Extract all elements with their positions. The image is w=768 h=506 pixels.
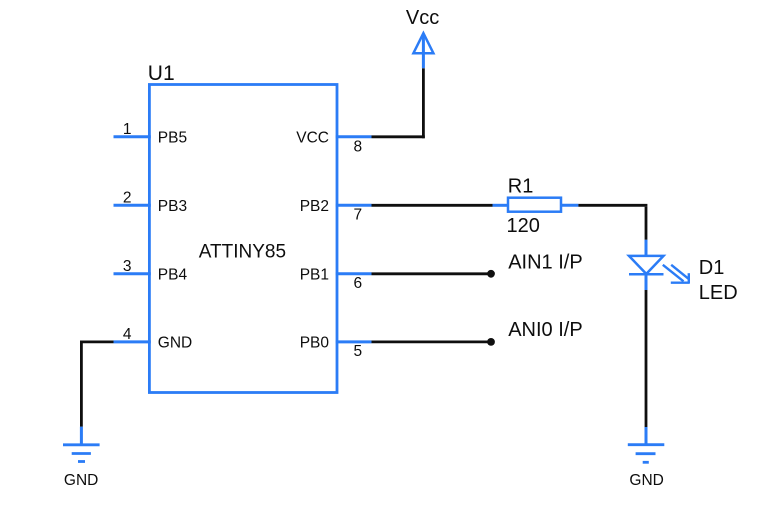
svg-text:1: 1 bbox=[123, 121, 132, 138]
pin 1 wire (PB5) bbox=[114, 135, 151, 138]
LED D1 anode lead bbox=[645, 240, 648, 257]
ground symbol left bar 3 bbox=[78, 460, 85, 463]
pin 5 wire (PB0 blue stub) bbox=[336, 340, 372, 343]
svg-text:PB4: PB4 bbox=[158, 267, 188, 284]
svg-text:7: 7 bbox=[354, 207, 363, 224]
IC U1 ATTINY85 body bbox=[149, 85, 337, 393]
junction dot ANI0 bbox=[487, 338, 495, 346]
ground symbol left bar 2 bbox=[72, 452, 91, 455]
svg-text:PB2: PB2 bbox=[300, 198, 329, 215]
wire pin6 to AIN1 bbox=[372, 272, 492, 275]
LED light arrow 2 shaft bbox=[671, 265, 689, 279]
ground symbol right bar 3 bbox=[643, 461, 649, 464]
pin 3 wire (PB4) bbox=[114, 272, 151, 275]
svg-text:GND: GND bbox=[629, 472, 663, 489]
pin 7 wire (PB2 blue stub) bbox=[336, 204, 372, 207]
wire pin5 to ANI0 bbox=[372, 340, 492, 343]
wire pin8 to Vcc vertical bbox=[422, 68, 425, 138]
LED light arrow barb vertical bbox=[688, 273, 690, 283]
junction dot AIN1 bbox=[487, 270, 495, 278]
wire pin7 to R1 bbox=[372, 204, 493, 207]
svg-text:120: 120 bbox=[507, 215, 540, 237]
wire R1 to LED vertical bbox=[645, 207, 648, 240]
ground symbol left stem bbox=[80, 427, 83, 445]
svg-text:PB1: PB1 bbox=[300, 267, 329, 284]
pin 6 wire (PB1 blue stub) bbox=[336, 272, 372, 275]
resistor R1 left lead bbox=[493, 204, 509, 207]
svg-text:4: 4 bbox=[123, 326, 132, 343]
svg-text:R1: R1 bbox=[508, 176, 534, 198]
svg-text:PB0: PB0 bbox=[300, 335, 330, 352]
svg-text:3: 3 bbox=[123, 258, 132, 275]
svg-text:ANI0 I/P: ANI0 I/P bbox=[508, 319, 582, 341]
svg-text:VCC: VCC bbox=[296, 130, 329, 147]
ground symbol left bar 1 bbox=[63, 443, 100, 446]
LED D1 cathode bar bbox=[629, 273, 664, 276]
power symbol Vcc stem bbox=[422, 34, 425, 68]
ground symbol right stem bbox=[645, 427, 648, 445]
ground symbol right bar 2 bbox=[636, 452, 656, 455]
svg-text:GND: GND bbox=[158, 335, 192, 352]
LED D1 triangle bbox=[629, 256, 664, 274]
wire pin8 to Vcc horizontal bbox=[372, 135, 425, 138]
ground symbol right bar 1 bbox=[628, 443, 665, 446]
wire R1 to LED horizontal bbox=[578, 204, 647, 207]
pin 2 wire (PB3) bbox=[114, 204, 151, 207]
resistor R1 body bbox=[508, 198, 561, 212]
svg-text:5: 5 bbox=[354, 343, 363, 360]
svg-text:2: 2 bbox=[123, 189, 132, 206]
svg-text:D1: D1 bbox=[699, 257, 725, 279]
wire pin4 to ground vertical bbox=[80, 341, 83, 427]
svg-text:8: 8 bbox=[354, 138, 363, 155]
wire pin4 to ground horizontal bbox=[80, 340, 114, 343]
pin 4 wire (GND pin blue stub) bbox=[114, 340, 151, 343]
wire LED to ground bbox=[645, 290, 648, 427]
LED D1 cathode lead bbox=[645, 274, 648, 290]
LED light arrow 1 shaft bbox=[663, 265, 684, 282]
svg-text:PB5: PB5 bbox=[158, 130, 187, 147]
svg-text:AIN1 I/P: AIN1 I/P bbox=[508, 252, 582, 274]
svg-text:U1: U1 bbox=[148, 62, 175, 85]
svg-text:ATTINY85: ATTINY85 bbox=[199, 242, 286, 263]
svg-text:6: 6 bbox=[354, 275, 363, 292]
LED light arrow barb horizontal bbox=[671, 282, 690, 284]
pin 8 wire (VCC blue stub) bbox=[336, 135, 372, 138]
svg-text:Vcc: Vcc bbox=[406, 7, 439, 29]
svg-text:GND: GND bbox=[64, 472, 98, 489]
resistor R1 right lead bbox=[561, 204, 578, 207]
svg-text:LED: LED bbox=[699, 282, 738, 304]
svg-text:PB3: PB3 bbox=[158, 198, 187, 215]
power symbol Vcc arrow bbox=[413, 33, 433, 53]
